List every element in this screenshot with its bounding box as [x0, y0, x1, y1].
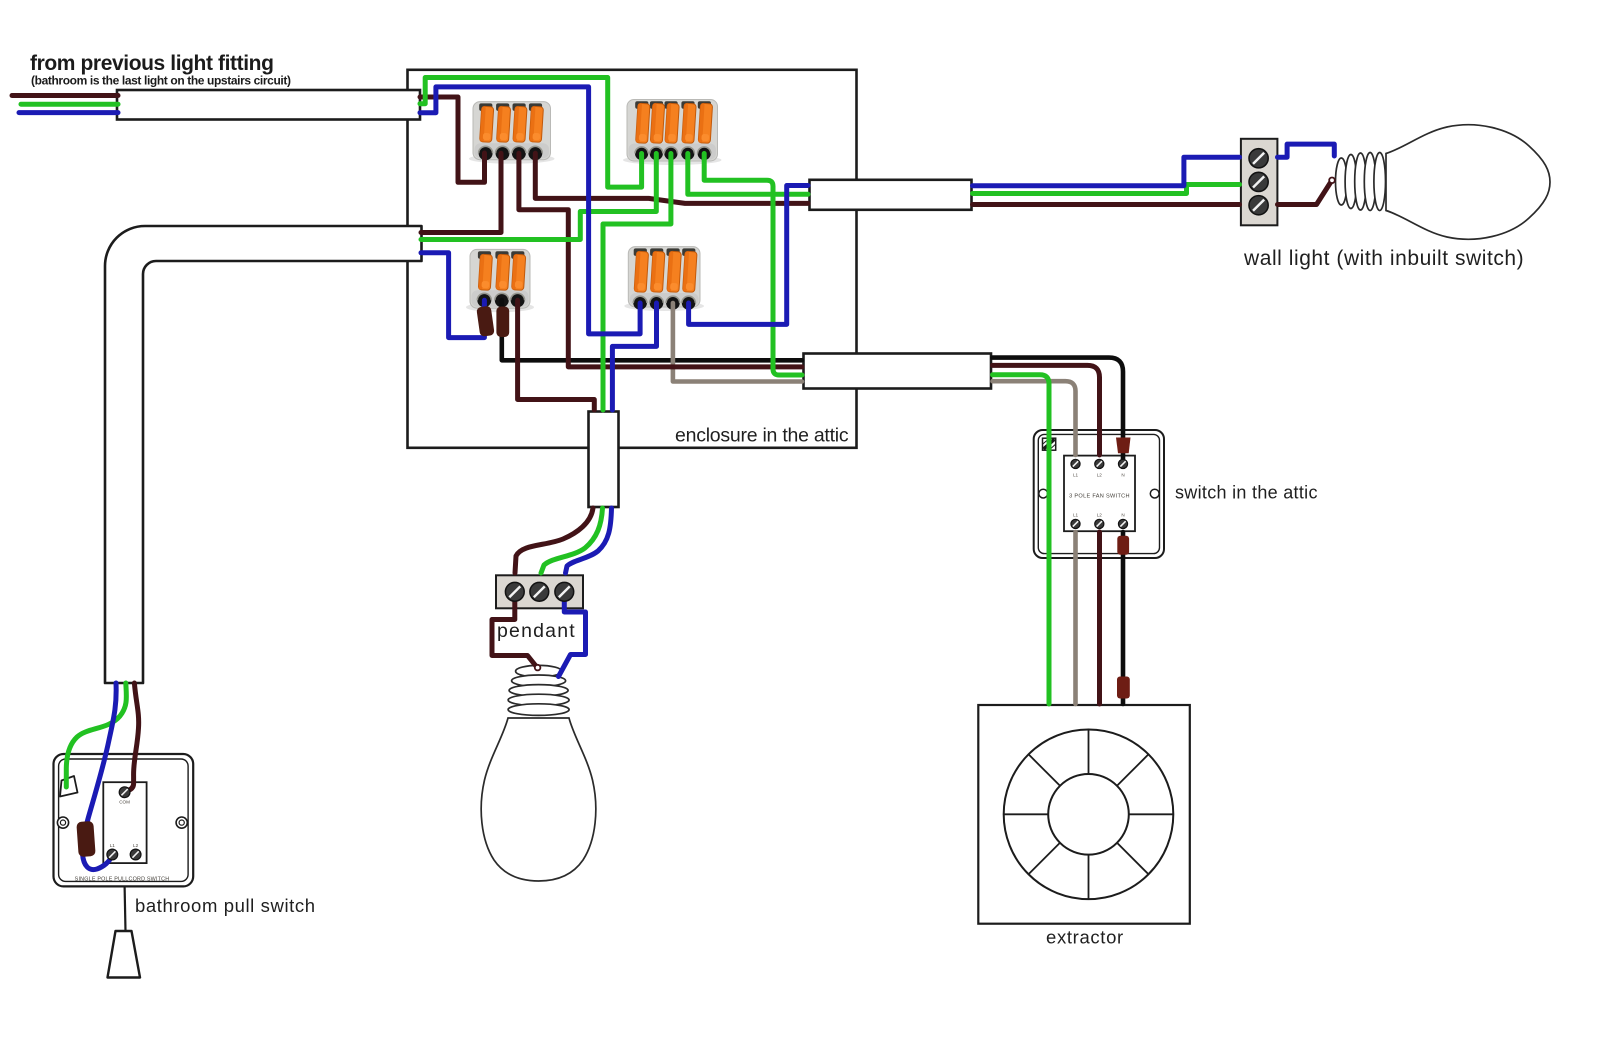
brown wire bathroom cable to pull switch COM — [128, 683, 139, 791]
wago connector B (5-way, top right) — [623, 100, 722, 166]
green earth wago B h3 to pendant cable — [603, 154, 671, 411]
svg-text:wall light (with inbuilt switc: wall light (with inbuilt switch) — [1243, 247, 1524, 270]
brown sleeve on blue wire at pull switch — [76, 821, 95, 857]
svg-text:from previous light fitting: from previous light fitting — [30, 52, 274, 75]
brown wire wall light cable to terminal — [973, 202, 1240, 207]
svg-text:N: N — [1121, 513, 1124, 518]
brown wire pendant terminal to bulb — [492, 597, 536, 666]
green earth wago B h4 to wall light cable — [688, 154, 808, 195]
svg-text:3 POLE FAN SWITCH: 3 POLE FAN SWITCH — [1069, 494, 1130, 500]
brown ferrule on black wire at extractor — [1117, 677, 1130, 699]
grey wire wago D h3 to extractor cable — [673, 303, 802, 382]
pull switch left mounting hole — [57, 817, 68, 828]
svg-text:extractor: extractor — [1046, 927, 1124, 948]
green earth bathroom cable to pull switch sleeve — [66, 683, 126, 787]
svg-text:L2: L2 — [1097, 473, 1103, 478]
black wire wago C h2 to extractor cable — [502, 300, 802, 360]
incoming neutral wire (blue) from previous fitting — [19, 110, 118, 115]
switch plate right mounting hole — [1150, 489, 1159, 498]
wall light cable sheath — [810, 180, 972, 210]
green earth pendant cable to pendant terminal — [541, 508, 603, 573]
extractor box — [978, 705, 1190, 924]
svg-text:pendant: pendant — [497, 620, 576, 642]
svg-text:SINGLE POLE PULLCORD SWITCH: SINGLE POLE PULLCORD SWITCH — [75, 877, 170, 883]
pull cord — [123, 886, 126, 931]
earth wire sleeve flag — [60, 776, 78, 797]
brown wire wall light terminal to bulb — [1278, 183, 1331, 205]
svg-text:(bathroom is the last light on: (bathroom is the last light on the upsta… — [31, 74, 291, 88]
pendant bulb contact dot — [535, 665, 541, 671]
pull switch screw COM — [119, 787, 130, 798]
grey wire extractor cable to attic switch L1 — [993, 381, 1076, 455]
extractor fan — [1004, 730, 1174, 900]
pendant bulb screw cap — [516, 665, 562, 677]
attic switch screw bottom N — [1118, 519, 1127, 528]
pull cord handle — [108, 931, 141, 978]
brown wire bathroom cable to wago A h2 — [421, 153, 501, 232]
blue switched live bathroom cable through pull switch sleeve to L1 — [82, 683, 116, 870]
blue neutral wall light cable to terminal — [973, 157, 1240, 186]
bathroom pull switch plate — [54, 754, 194, 886]
brown ferrule on black wire above attic switch — [1116, 438, 1131, 454]
blue neutral wago D h4 to wall light cable — [689, 186, 808, 325]
pull switch screw L2 — [130, 849, 141, 860]
brown sleeve on black wire at wago C h2 — [496, 307, 509, 338]
pendant terminal screw 2 — [530, 582, 549, 601]
bathroom cable sheath (bent tube) — [105, 226, 422, 683]
wall light bulb contact dot — [1329, 178, 1335, 184]
pull switch screw L1 — [107, 849, 118, 860]
pull switch terminal labels — [110, 800, 139, 849]
wall light bulb glass — [1386, 125, 1550, 239]
pendant cable sheath — [589, 412, 619, 508]
wago connector D (4-way, bottom right) — [624, 247, 704, 311]
pendant bulb glass — [481, 718, 596, 881]
switch in the attic plate — [1034, 430, 1164, 558]
brown wire from previous fitting to wago A h1 — [420, 97, 485, 182]
pendant terminal screw 1 — [505, 582, 524, 601]
3 pole fan switch terminal box — [1064, 456, 1135, 532]
svg-text:COM: COM — [119, 800, 130, 805]
green earth wago B h5 to extractor cable — [704, 154, 802, 376]
svg-text:L1: L1 — [110, 843, 116, 848]
brown wire attic switch L2 to extractor — [1097, 532, 1102, 704]
blue neutral bathroom cable to wago C h1 — [421, 253, 484, 338]
pull switch terminal box — [103, 782, 146, 863]
blue neutral from previous fitting to wago D h1 — [420, 87, 640, 334]
incoming live wire (brown) from previous fitting — [12, 93, 118, 98]
black wire attic switch N to extractor — [1121, 532, 1126, 704]
wall light bulb screw cap — [1336, 158, 1348, 205]
pendant terminal block — [496, 575, 583, 608]
green earth extractor cable through attic switch to extractor — [993, 375, 1050, 704]
cable sheath from previous light fitting — [117, 90, 420, 120]
attic switch screw top L2 — [1095, 459, 1104, 468]
brown ferrule on black wire below attic switch — [1117, 536, 1129, 555]
brown wire wago A h3 to extractor cable — [519, 153, 802, 367]
black wire extractor cable to attic switch N — [993, 358, 1124, 460]
brown wire wago C h3 to pendant cable — [518, 300, 595, 410]
pull switch right mounting hole — [176, 817, 187, 828]
blue switched live wall light terminal to bulb — [1278, 144, 1335, 157]
green earth bathroom cable to wago B h2 — [421, 154, 656, 240]
svg-text:switch in the attic: switch in the attic — [1175, 483, 1318, 503]
brown wire pendant cable to pendant terminal — [515, 508, 593, 573]
attic switch screw bottom L2 — [1095, 519, 1104, 528]
green earth from previous fitting to wago B h1 — [420, 78, 642, 188]
wall light terminal screw 3 — [1249, 196, 1268, 215]
attic switch screw bottom L1 — [1071, 519, 1080, 528]
brown wire extractor cable to attic switch L2 — [993, 365, 1100, 455]
svg-text:bathroom pull switch: bathroom pull switch — [135, 895, 316, 916]
green earth wall light cable to terminal — [973, 185, 1240, 194]
svg-text:L1: L1 — [1073, 513, 1079, 518]
incoming earth wire (green) from previous fitting — [21, 102, 118, 107]
wall light terminal screw 2 — [1249, 172, 1268, 191]
enclosure in the attic box — [408, 70, 857, 448]
switch plate fixing screw (hatched) — [1043, 438, 1056, 450]
wall light terminal block — [1241, 139, 1278, 226]
attic switch terminal labels — [1073, 473, 1125, 518]
grey wire attic switch L1 to extractor — [1073, 532, 1078, 704]
blue neutral pendant cable to pendant terminal — [566, 508, 612, 573]
extractor cable sheath — [804, 354, 992, 389]
switch plate left mounting hole — [1039, 489, 1048, 498]
wall light terminal screw 1 — [1249, 149, 1268, 168]
svg-text:L2: L2 — [1097, 513, 1103, 518]
wago connector A (4-way, top left) — [469, 102, 555, 164]
blue neutral wago D h2 to pendant cable — [612, 303, 656, 410]
brown sleeve on blue wire at wago C h1 — [476, 306, 494, 337]
attic switch screw top N — [1118, 459, 1127, 468]
svg-text:N: N — [1121, 473, 1124, 478]
attic switch screw top L1 — [1071, 459, 1080, 468]
svg-text:L2: L2 — [133, 843, 139, 848]
pendant terminal screw 3 — [555, 582, 574, 601]
brown wire wago A h4 to wall light cable — [535, 153, 808, 203]
wago connector C (3-way, bottom left) — [466, 249, 534, 312]
blue neutral pendant terminal to bulb — [559, 597, 586, 677]
svg-text:L1: L1 — [1073, 473, 1079, 478]
svg-text:enclosure in the attic: enclosure in the attic — [675, 425, 849, 447]
